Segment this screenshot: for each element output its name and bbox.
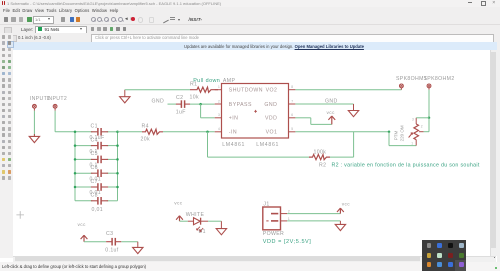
- wire: [74, 131, 76, 200]
- vcc: [337, 202, 350, 213]
- pin INPUT2: [47, 96, 68, 111]
- junction: [199, 102, 202, 105]
- wire: [180, 220, 188, 222]
- sheet origin cross: [16, 211, 24, 219]
- vcc: [78, 222, 88, 241]
- wire: [416, 117, 429, 131]
- svg-text:1uF: 1uF: [176, 109, 186, 115]
- svg-text:J1: J1: [263, 201, 269, 207]
- resistor R1: [190, 81, 219, 100]
- svg-text:SPK8OHM2: SPK8OHM2: [424, 76, 455, 82]
- potentiometer PTM 220OM: [394, 117, 424, 145]
- capacitor C5: [90, 151, 109, 168]
- wire: [330, 131, 354, 156]
- wire: [163, 130, 215, 132]
- svg-text:Pull down: Pull down: [193, 78, 220, 84]
- note R2: [332, 162, 480, 168]
- toolbar row 1: [0, 14, 500, 25]
- wire: [190, 103, 215, 105]
- connector J1 POWER: [263, 201, 290, 237]
- svg-text:R2: R2: [319, 162, 326, 168]
- wire: [389, 131, 416, 145]
- svg-text:BYPASS: BYPASS: [229, 101, 252, 107]
- svg-text:WHITE: WHITE: [186, 211, 205, 217]
- junction: [206, 130, 209, 133]
- svg-text:2: 2: [218, 99, 220, 103]
- wire: [208, 131, 310, 156]
- menu bar: [0, 7, 500, 14]
- svg-text:1: 1: [288, 216, 290, 220]
- note VDD: [263, 238, 312, 244]
- wire: [201, 104, 215, 118]
- svg-text:6: 6: [291, 113, 293, 117]
- svg-text:PTM: PTM: [394, 130, 399, 140]
- svg-text:-IN: -IN: [229, 129, 237, 135]
- svg-text:1: 1: [218, 85, 220, 89]
- svg-text:R2 : variable en fonction de l: R2 : variable en fonction de la puissanc…: [332, 162, 480, 168]
- svg-text:100k: 100k: [314, 149, 327, 155]
- junction: [116, 144, 119, 147]
- svg-text:C8: C8: [91, 192, 98, 198]
- svg-text:0.1uf: 0.1uf: [105, 247, 118, 253]
- junction: [388, 130, 391, 133]
- vcc: [327, 110, 336, 124]
- svg-text:4: 4: [218, 127, 220, 131]
- LED D1 WHITE: [186, 211, 208, 234]
- left tool palette: [0, 33, 13, 258]
- junction: [74, 158, 77, 161]
- wire: [121, 240, 137, 242]
- svg-text:vcc: vcc: [342, 202, 350, 207]
- wire: [295, 88, 401, 90]
- svg-text:220 OM: 220 OM: [400, 125, 405, 141]
- wire: [295, 117, 331, 124]
- wire: [168, 103, 177, 105]
- wire: [75, 186, 118, 188]
- wire: [208, 220, 221, 222]
- svg-text:8: 8: [291, 85, 293, 89]
- junction: [74, 144, 77, 147]
- svg-text:C3: C3: [106, 231, 113, 237]
- junction: [74, 185, 77, 188]
- resistor R4: [141, 123, 164, 142]
- wire: [33, 110, 35, 136]
- svg-text:C4: C4: [91, 137, 98, 143]
- wire: [75, 172, 118, 174]
- system tray panel: [422, 240, 466, 271]
- wire: [125, 88, 190, 90]
- svg-text:GND: GND: [152, 98, 165, 104]
- svg-text:GND: GND: [264, 101, 277, 107]
- capacitor C3: [105, 231, 121, 253]
- wire: [84, 240, 106, 242]
- svg-text:1: 1: [411, 141, 413, 145]
- pin SPK8OHM1: [396, 76, 427, 90]
- svg-text:VDD: VDD: [265, 115, 277, 121]
- resistor R2: [309, 149, 330, 168]
- vertical scrollbar: [490, 50, 498, 256]
- ground: [120, 89, 130, 102]
- svg-text:vcc: vcc: [78, 222, 86, 227]
- pin SPK8OHM2: [424, 76, 455, 90]
- wire: [55, 110, 75, 131]
- canvas: [13, 50, 490, 256]
- wire: [75, 158, 118, 160]
- svg-text:D1: D1: [199, 228, 206, 234]
- capacitor C6: [90, 165, 109, 182]
- svg-text:VO1: VO1: [266, 129, 278, 135]
- svg-text:20k: 20k: [141, 136, 150, 142]
- toolbar row 3 : coords + command line: [0, 33, 500, 42]
- label GND: [325, 98, 338, 104]
- svg-text:3: 3: [218, 113, 220, 117]
- label Pull down: [193, 78, 220, 84]
- svg-text:AMP: AMP: [223, 78, 236, 84]
- ground: [335, 220, 345, 230]
- wire: [295, 103, 353, 105]
- svg-text:vcc: vcc: [327, 110, 335, 115]
- wire: [287, 219, 340, 221]
- svg-text:INPUT2: INPUT2: [47, 96, 68, 102]
- svg-text:5: 5: [291, 127, 293, 131]
- ground: [216, 221, 226, 235]
- capacitor C1: [90, 123, 109, 140]
- svg-text:POWER: POWER: [263, 231, 284, 237]
- svg-text:C6: C6: [91, 165, 98, 171]
- svg-text:GND: GND: [325, 98, 338, 104]
- svg-text:R4: R4: [142, 123, 149, 129]
- svg-text:LM4861: LM4861: [256, 141, 279, 147]
- capacitor C2: [176, 95, 190, 115]
- title bar: [0, 0, 500, 7]
- junction: [74, 130, 77, 133]
- svg-text:+IN: +IN: [229, 115, 239, 121]
- capacitor C8: [91, 192, 109, 212]
- wire: [75, 130, 118, 132]
- ground: [133, 241, 143, 253]
- junction: [116, 158, 119, 161]
- svg-text:2: 2: [288, 209, 290, 213]
- horizontal scrollbar: [13, 256, 496, 264]
- pin INPUT1: [30, 96, 51, 111]
- toolbar row 2: [0, 25, 500, 33]
- junction: [74, 171, 77, 174]
- wire: [428, 89, 430, 117]
- junction: [116, 130, 119, 133]
- ground: [348, 104, 358, 117]
- capacitor C4: [90, 137, 109, 154]
- svg-text:2: 2: [421, 124, 423, 128]
- svg-text:C1: C1: [91, 123, 98, 129]
- svg-text:LM4861: LM4861: [222, 141, 245, 147]
- wire: [75, 144, 118, 146]
- vcc: [174, 201, 183, 221]
- wire: [295, 130, 389, 132]
- blue notification bar: [13, 42, 500, 51]
- junction: [116, 171, 119, 174]
- capacitor C7: [90, 178, 109, 195]
- wire: [287, 212, 340, 214]
- svg-text:SHUTDOWN: SHUTDOWN: [229, 87, 263, 93]
- svg-text:VO2: VO2: [266, 87, 278, 93]
- wire: [117, 131, 119, 200]
- op-amp U1 LM4861: [215, 78, 296, 148]
- wire: [75, 199, 118, 201]
- svg-text:0,01: 0,01: [92, 207, 104, 213]
- svg-text:C5: C5: [91, 151, 98, 157]
- svg-text:10k: 10k: [190, 94, 199, 100]
- status bar: [0, 262, 500, 271]
- ground: [29, 134, 39, 143]
- svg-text:vcc: vcc: [174, 201, 182, 206]
- svg-text:C7: C7: [91, 178, 98, 184]
- junction: [116, 185, 119, 188]
- wire: [118, 130, 143, 132]
- label GND: [152, 98, 165, 104]
- svg-text:VDD = [2V;5.5V]: VDD = [2V;5.5V]: [263, 238, 312, 244]
- junction: [428, 116, 431, 119]
- svg-text:C2: C2: [176, 95, 183, 101]
- svg-text:SPK8OHM1: SPK8OHM1: [396, 76, 427, 82]
- svg-text:3: 3: [412, 117, 414, 121]
- svg-text:7: 7: [291, 99, 293, 103]
